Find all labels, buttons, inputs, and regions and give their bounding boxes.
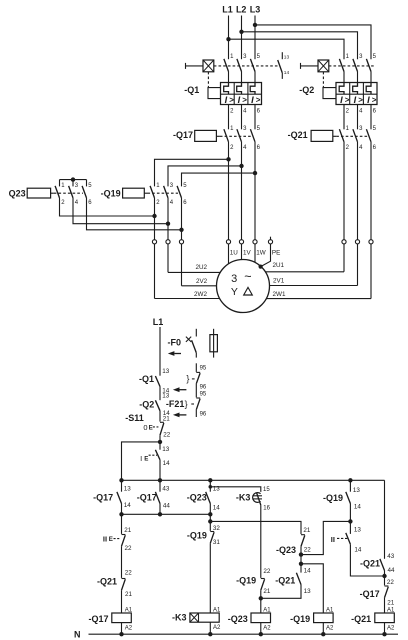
svg-text:14: 14 [304,567,312,574]
-Q1 thermal release pole 5 [250,83,255,95]
svg-text:>: > [256,96,261,105]
-Q2 pole contact 3 [353,59,358,72]
wire L1 vertical [228,16,230,60]
node bus1 junction A [119,478,123,482]
svg-text:L1: L1 [222,5,233,15]
wire Q23 pole 4 to Q19 pole 4 [73,198,168,224]
arrow alternative Q1/95-96 [173,387,180,392]
-Q1 release box [221,83,262,105]
wire 2U1 right winding [265,244,344,272]
node junction L1 branch [226,37,230,41]
svg-text:1U: 1U [230,250,239,257]
arrow alternative Q2/F21 [173,413,180,418]
svg-text:>: > [372,96,377,105]
-Q21 linkage dashes [336,135,367,137]
wire L3 vertical [254,16,256,60]
wire -Q21 pole 6 down [370,142,372,240]
svg-text:2V1: 2V1 [273,278,285,285]
svg-text:PE: PE [272,250,280,257]
node bus2 junction B [158,512,162,516]
svg-text:E: E [109,536,113,543]
node N junction Q17 coil [119,632,123,636]
-Q1 pole contact 5 [250,59,255,72]
svg-text:A2: A2 [213,625,221,631]
svg-text:21: 21 [125,591,133,598]
svg-text:-Q2: -Q2 [139,400,154,410]
svg-text:-Q17: -Q17 [88,614,108,624]
Q23 main contact pole 1 [59,180,61,187]
svg-text:II: II [331,535,335,544]
svg-text:21: 21 [387,599,395,606]
svg-text:>: > [242,96,247,105]
svg-text:13: 13 [124,485,132,492]
node col E lower junction [299,562,303,566]
svg-text:15: 15 [263,487,270,493]
wire 2V2 left winding [181,244,183,286]
svg-text:-Q21: -Q21 [360,559,380,569]
svg-text:3: 3 [231,273,237,285]
aux contact of -Q1 13-14 [281,52,283,59]
svg-text:Y: Y [231,286,238,298]
svg-text:22: 22 [387,579,395,586]
-Q1 pole 4 output [241,105,243,130]
svg-text:-Q23: -Q23 [187,493,207,503]
Q19 linkage dashes [148,192,179,194]
-Q1 thermal release pole 3 [237,83,242,95]
node bus1 junction Q19 [348,478,352,482]
-Q2 trip linkage bracket [323,88,336,99]
svg-text:E: E [144,456,148,463]
svg-text:-F21: -F21 [166,399,185,409]
svg-text:-Q21: -Q21 [275,576,295,586]
node junction L2 branch [239,30,243,34]
wire PE stub above terminal [270,237,272,240]
-Q1 linkage dashes [207,72,209,88]
wire 2W1 right winding [266,244,371,299]
svg-text:I: I [251,95,254,105]
svg-text:>: > [229,96,234,105]
contact -Q23 13-14 [209,480,211,491]
terminal circle [179,240,183,244]
wire L2 vertical [241,16,243,60]
Q23 main contact pole 5 [86,180,88,187]
contact -Q17 43-44 [159,480,161,491]
wire -Q17 pole 4 output down to motor 1V [241,142,243,240]
wire line to -Q23 21 column [210,521,301,534]
terminal circle [166,240,170,244]
arrow alternative F0 [168,351,175,356]
svg-text:2W1: 2W1 [273,291,286,298]
svg-text:}: } [186,374,189,384]
wire 1U into motor [228,244,230,264]
svg-text:13: 13 [162,368,170,375]
svg-text:II: II [103,535,107,544]
contact -Q17 13-14 seal-in [121,480,123,491]
-Q1 pole contact 1 [224,59,229,72]
-Q2 actuating dashed line [329,65,374,67]
svg-text:-K3: -K3 [172,613,187,623]
-Q17 linkage dashes [220,135,252,137]
wire PE to motor frame [261,244,271,267]
svg-text:32: 32 [213,525,221,532]
svg-text:14: 14 [354,547,362,554]
wire feed to -Q19 pole 5 [182,173,256,186]
motor M1 circle 3~ Y-delta [217,260,270,313]
terminal circle [342,240,346,244]
svg-text:95: 95 [200,392,207,398]
svg-text:14: 14 [163,460,171,467]
node bus1 junction main [158,478,162,482]
overload relay contact 95-96 alternative for Q1 [195,363,197,372]
node col H junction [382,574,386,578]
svg-text:-S11: -S11 [125,413,144,423]
wire col C down to K3 coil [209,543,211,613]
-Q2 pole 4 output [357,105,359,130]
terminal circle [369,240,373,244]
svg-text:-F0: -F0 [168,338,182,348]
wire -Q21 pole 2 down [343,142,345,240]
svg-text:-Q21: -Q21 [288,130,308,140]
svg-text:22: 22 [163,431,171,438]
svg-text:0: 0 [143,423,147,432]
-Q1 trip linkage bracket [208,88,221,99]
svg-text:96: 96 [200,384,207,390]
fuse F0 alternative: fuse symbol [213,329,215,358]
svg-text:31: 31 [213,539,221,546]
svg-text:-Q19: -Q19 [187,530,207,540]
-Q1 thermal release pole 1 [224,83,229,95]
wire L2 branch to -Q2 pole 3 [242,32,358,59]
svg-text:43: 43 [387,553,395,560]
node junction Q19/Q23 pole6 [179,228,183,232]
svg-text:I: I [340,95,343,105]
wire col E to Q23 coil junction [261,585,301,599]
-Q2 thermal release pole 1 [339,83,344,95]
wire II button to col H [350,544,384,576]
svg-text:95: 95 [200,365,207,371]
svg-text:N: N [74,630,81,640]
svg-text:-Q17: -Q17 [360,589,380,599]
wire K3 feed branch [210,487,260,492]
wire col E to Q19 coil [301,564,323,613]
svg-text:43: 43 [162,485,170,492]
svg-text:~: ~ [244,269,251,283]
-Q2 thermal release pole 3 [353,83,358,95]
node junction L3 branch [253,23,257,27]
wire -Q17 pole 6 output down to motor 1W [254,142,256,240]
node junction Q23 bus [71,177,75,181]
svg-text:-Q19: -Q19 [236,576,256,586]
node junction Q17-6 branch [253,171,257,175]
svg-text:}: } [185,399,188,409]
node bus2 junction A [119,512,123,516]
svg-text:I: I [225,95,228,105]
wire Q23 pole 6 to Q19 pole 6 [87,198,182,230]
wire feed to -Q19 pole 3 [168,166,242,187]
svg-text:14: 14 [354,503,362,510]
motor delta symbol [244,287,253,295]
Q23 star-point bus [60,179,87,181]
svg-text:16: 16 [263,505,270,511]
node bus1 junction Q23 [208,478,212,482]
svg-text:-Q19: -Q19 [101,188,121,198]
svg-text:22: 22 [263,568,271,575]
wire control bus 2 [122,513,211,515]
svg-text:-Q2: -Q2 [299,85,314,95]
node PE frame junction [259,265,263,269]
svg-text:2W2: 2W2 [194,291,207,298]
svg-text:14: 14 [284,70,290,76]
svg-text:22: 22 [125,570,133,577]
svg-text:14: 14 [124,502,132,509]
svg-text:A2: A2 [125,625,133,631]
svg-text:2U1: 2U1 [273,262,285,269]
svg-text:-Q17: -Q17 [137,493,157,503]
pushbutton II speed-2 21-22 on column A [121,514,123,534]
svg-text:>: > [345,96,350,105]
wire col D down from K3 contact [260,505,262,578]
wire L3 branch to -Q2 pole 5 [255,25,371,59]
-Q1 pole 6 output [254,105,256,130]
node N junction Q21 coil [382,632,386,636]
node junction Q17-4 branch [239,164,243,168]
svg-text:-Q23: -Q23 [228,614,248,624]
svg-text:21: 21 [303,527,311,534]
wire 1V into motor [241,244,243,260]
svg-text:13: 13 [304,588,312,595]
svg-text:-Q21: -Q21 [351,614,371,624]
svg-text:I: I [140,454,142,463]
wire control bus 1 [122,479,385,481]
wire 2W2 left winding [154,244,156,299]
wire -Q17 pole 2 output down to motor 1U [228,142,230,240]
terminal circle [355,240,359,244]
contact -Q19 32-31 [209,514,211,531]
terminal circle [253,240,257,244]
fuse F0 alternative: miniature circuit breaker [195,329,197,337]
svg-text:21: 21 [263,588,271,595]
svg-text:44: 44 [163,503,171,510]
Q23 main contact pole 3 [72,180,74,187]
svg-text:14: 14 [213,504,221,511]
svg-text:-Q19: -Q19 [290,614,310,624]
wire col H from bus1 [384,480,386,559]
wire -Q19 pole 2 down [154,198,156,240]
svg-text:13: 13 [354,526,362,533]
wire control main line from L1 [159,327,161,376]
terminal circle [226,240,230,244]
-Q2 pole 6 output [370,105,372,130]
node junction Q17-2 branch [226,157,230,161]
node N junction Q19 coil [321,632,325,636]
svg-text:13: 13 [162,446,170,453]
-Q2 thermal release pole 5 [366,83,371,95]
terminal circle [268,240,272,244]
wire neutral N bus [89,633,399,635]
-Q1 actuating dashed line [214,65,278,67]
node branch junction to seal-in [158,440,162,444]
terminal circle [239,240,243,244]
wire -Q19 pole 4 down [167,198,169,240]
K3 on-delay symbol [253,493,261,503]
svg-text:21: 21 [124,527,132,534]
svg-text:-Q19: -Q19 [323,493,343,503]
node col E upper junction [299,552,303,556]
svg-text:-Q23: -Q23 [276,545,296,555]
-Q2 release box [336,83,377,105]
svg-text:22: 22 [304,547,312,554]
svg-text:-Q17: -Q17 [173,130,193,140]
svg-text:1V: 1V [243,250,252,257]
svg-text:Q23: Q23 [9,189,26,199]
svg-text:A2: A2 [387,625,395,631]
svg-text:L1: L1 [153,317,164,327]
svg-text:E: E [149,424,153,431]
node bus2 junction C [208,512,212,516]
svg-text:>: > [358,96,363,105]
svg-text:L3: L3 [250,5,261,15]
-Q2 pole contact 5 [366,59,371,72]
svg-text:96: 96 [200,412,207,418]
wire 2U2 left winding [167,244,169,272]
node Q19-14 junction [348,519,352,523]
-Q2 pole 2 output [343,105,345,130]
wire 1W into motor [254,244,256,263]
svg-text:2V2: 2V2 [196,278,208,285]
svg-text:-Q1: -Q1 [139,374,154,384]
svg-text:21: 21 [163,416,171,423]
svg-text:44: 44 [388,567,396,574]
svg-text:-Q17: -Q17 [93,493,113,503]
node col C below bus2 [208,519,212,523]
wire feed to -Q19 pole 1 [155,159,229,186]
svg-text:I: I [354,95,357,105]
wire -Q21 pole 4 down [357,142,359,240]
wire L1 branch to -Q2 pole 1 [229,39,345,59]
wire Q19-14 to col E [301,521,350,554]
contact -Q19 13-14 [349,480,351,491]
-Q2 pole contact 1 [339,59,344,72]
svg-text:13: 13 [284,55,290,61]
node N junction K3 coil [208,632,212,636]
wire -Q19 pole 6 down [181,198,183,240]
svg-text:A2: A2 [326,625,334,631]
svg-text:2U2: 2U2 [195,264,207,271]
svg-text:I: I [367,95,370,105]
svg-text:A2: A2 [263,625,271,631]
wire branch to left column [122,442,161,480]
circuit-breaker -Q1 manual operator [185,63,187,69]
-Q1 pole contact 3 [237,59,242,72]
svg-text:-Q1: -Q1 [184,85,199,95]
-Q2 linkage dashes [322,72,324,88]
svg-text:-Q21: -Q21 [97,577,117,587]
node Q23 coil feed junction [259,596,263,600]
svg-text:I: I [238,95,241,105]
wire Q23 pole 2 to Q19 pole 2 [60,198,155,216]
svg-text:13: 13 [353,487,361,494]
circuit-breaker -Q2 manual operator [300,63,302,69]
terminal circle [152,240,156,244]
node junction Q19/Q23 pole2 [152,214,156,218]
Q23 linkage dashes [54,192,83,194]
svg-text:1W: 1W [256,250,266,257]
-Q1 pole 2 output [228,105,230,130]
node N junction Q23 coil [259,632,263,636]
svg-text:L2: L2 [236,5,247,15]
svg-text:22: 22 [125,545,133,552]
wire 2V1 right winding [270,244,358,286]
svg-text:-K3: -K3 [236,493,251,503]
node junction Q19/Q23 pole4 [166,222,170,226]
